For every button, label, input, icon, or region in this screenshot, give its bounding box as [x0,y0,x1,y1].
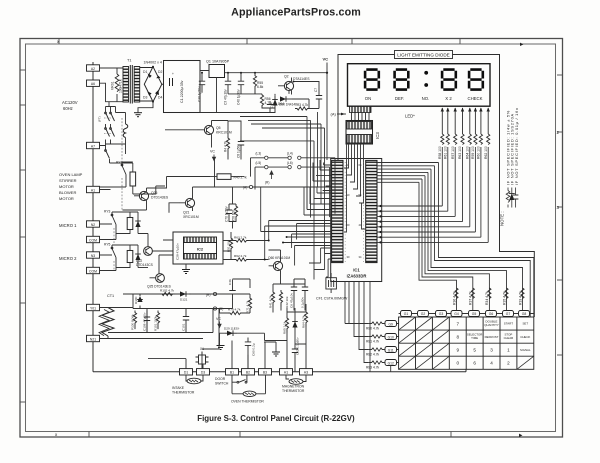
svg-text:X 2: X 2 [445,96,452,101]
svg-text:Figure S-3. Control Panel Circ: Figure S-3. Control Panel Circuit (R-22G… [197,414,355,423]
diode D100 [137,294,143,309]
svg-text:VC: VC [210,150,215,154]
svg-text:INTAKE: INTAKE [172,386,185,390]
svg-text:G4: G4 [454,312,459,316]
wires switches to A7 [100,144,126,190]
svg-text:MOTOR: MOTOR [59,184,74,189]
resistor R62 2.7k [234,258,249,261]
svg-text:STIRRER: STIRRER [59,178,77,183]
dashed link RY1 to coil below [121,178,123,210]
wire fan IC1 right pins to digit drivers (down to matrix) [377,163,534,318]
svg-text:R101 100k: R101 100k [154,316,158,331]
svg-text:R57 100: R57 100 [451,146,455,159]
AC line wires to transformer [100,68,124,102]
page border inner frame [26,44,556,432]
resistor R101 100k [156,311,159,330]
svg-text:R33 4.7k: R33 4.7k [518,291,522,305]
svg-text:3: 3 [557,205,560,210]
svg-text:KRC101M: KRC101M [216,131,232,135]
wires power section mesh [255,73,327,113]
svg-text:IC3: IC3 [375,132,380,139]
IC1 pin number columns (texture) [345,162,363,262]
svg-text:R61 100: R61 100 [444,146,448,159]
svg-text:+: + [172,72,174,76]
resistors R41/R42 [271,290,274,307]
dashed mechanical link upper [104,117,113,119]
svg-text:BLOWER: BLOWER [59,190,76,195]
svg-text:CF1 CSTA.00MGW: CF1 CSTA.00MGW [316,297,348,301]
wires Q5 row [165,121,241,160]
capacitor C101 [183,309,189,333]
left connector bus [92,62,94,372]
svg-text:C10 1µ50v: C10 1µ50v [198,86,202,102]
svg-text:DTD143ES: DTD143ES [151,196,169,200]
svg-text:QUANTITY: QUANTITY [484,323,499,327]
svg-text:G1: G1 [404,312,409,316]
svg-text:R102 4.7k: R102 4.7k [160,289,175,293]
resistor R55 6.8k [253,73,256,94]
connector box D3 [197,369,210,375]
svg-text:D2: D2 [158,70,162,74]
resistor R56 4.7k [260,94,275,108]
svg-text:20: 20 [347,223,350,227]
svg-text:G8: G8 [522,312,527,316]
resistor R102 4.7k [160,292,175,295]
node (R) [213,292,216,295]
transistor Q5 KRC101M [204,125,213,134]
wire fan IC1 left pins to mid section [255,160,332,280]
svg-text:NOTE :: NOTE : [500,211,505,226]
svg-text:DTD143CS: DTD143CS [136,263,154,267]
7-segment display module outline [348,64,491,106]
connector box B1 [226,369,239,375]
svg-text:C8 1µ50v: C8 1µ50v [237,144,241,158]
svg-text:D3: D3 [143,96,147,100]
title box LIGHT EMITTING DIODE [395,51,453,59]
svg-text:R71 4.7k: R71 4.7k [246,300,250,313]
wires IC3 to IC1 interior bus [344,144,365,232]
page border outer frame [20,39,563,438]
wires Q60 area [269,250,306,313]
connector box B3 [259,369,272,375]
svg-text:R59 100: R59 100 [471,146,475,159]
svg-text:R83 4.7k: R83 4.7k [366,366,380,370]
connector box A2 [87,65,100,71]
svg-text:Q21: Q21 [183,211,190,215]
svg-text:OVEN LAMP: OVEN LAMP [59,172,83,177]
diode D30 1N4148 [280,96,292,102]
transformer T1 [123,59,140,104]
svg-text:R40 2.7k: R40 2.7k [234,176,248,180]
svg-text:N2: N2 [91,223,95,227]
capacitor C8 [238,136,244,155]
svg-text:RY5: RY5 [104,243,111,247]
capacitor C10 [199,73,205,93]
interlock switch pair (FT) upper [105,112,115,128]
svg-text:(L4): (L4) [287,152,293,156]
svg-text:(R): (R) [265,181,269,185]
capacitor C64 [267,101,273,112]
ground (bottom rail) [217,346,225,350]
junction dots power rail [201,72,328,83]
capacitor C70 [226,204,232,220]
svg-text:G11: G11 [388,348,394,352]
svg-text:Q5: Q5 [216,126,221,130]
svg-text:64: 64 [359,163,362,167]
svg-text:A6: A6 [91,82,95,86]
connector box H1 [280,369,293,375]
svg-text:P100 8.06k: P100 8.06k [131,314,135,330]
svg-text:MICRO 1: MICRO 1 [59,223,77,228]
connector box N21 [87,335,100,341]
wire (A) to IC1 [205,186,331,188]
wire fan IC1 right pins to display columns [377,147,488,242]
resistor box RY5 coil [127,251,133,263]
svg-text:SET: SET [522,322,528,326]
svg-text:6: 6 [473,361,476,366]
svg-text:C40 1µ50v: C40 1µ50v [237,89,241,105]
svg-text:MAGNETRON: MAGNETRON [282,385,305,389]
svg-text:(R): (R) [206,293,210,297]
resistor R70 4.7k [228,311,243,314]
capacitor C62 [292,344,298,359]
resistor R71 4.7k [248,296,251,313]
diode D55 [135,217,141,230]
svg-text:D1: D1 [184,371,188,375]
resistor R40 2.7k (box style) [217,174,231,180]
svg-text:H1: H1 [284,371,288,375]
connector box D1 [180,369,193,375]
svg-text:G5: G5 [472,312,477,316]
svg-text:R42 10k: R42 10k [285,296,289,308]
transistor Q26 DTD143ES [139,191,148,200]
svg-text:C62 0.1µ50v: C62 0.1µ50v [296,337,300,355]
svg-text:G7: G7 [506,312,511,316]
frame tick marks [20,39,563,438]
ceramic resonator CF1 [326,273,337,293]
coil / breaker S-symbol [123,124,128,138]
matrix key labels [457,322,511,366]
display left pin group (5 wires to IC3) [352,106,370,120]
display annunciator labels [365,96,483,101]
svg-text:AppliancePartsPros.com: AppliancePartsPros.com [231,7,361,19]
transistor Q25 DTD143ES [156,274,165,283]
connector pair (L6) [288,165,291,168]
switch contact (oven lamp branch) [105,146,110,164]
note diode symbol [509,188,515,208]
svg-text:R36 4.7k: R36 4.7k [452,291,456,305]
svg-text:Y01: Y01 [90,306,96,310]
capacitor C40 [238,73,244,94]
labels R33-R37 [452,291,522,305]
svg-text:C7: C7 [314,88,318,92]
oven thermistor symbol [243,391,256,396]
svg-text:C3 47µ10v: C3 47µ10v [224,89,228,105]
labels R57-R64 100 [438,146,488,159]
svg-text:RY3: RY3 [104,210,111,214]
svg-text:30: 30 [347,255,350,259]
connector box N2 [87,221,100,227]
svg-text:R60 100: R60 100 [477,146,481,159]
wires IC2 [153,232,269,274]
LED section enclosure box [338,55,534,318]
svg-text:10G471K: 10G471K [119,78,123,93]
diode bridge D1-D4 [140,67,164,102]
IC1 right pin strip [366,160,377,262]
column connector boxes G1-G8 [399,311,534,318]
svg-text:C64: C64 [270,102,274,108]
matrix diagonal (unused) cells [399,317,534,369]
svg-text:R63 100: R63 100 [458,146,462,159]
svg-text:CT1: CT1 [107,294,114,298]
connector box H3 [300,369,313,375]
svg-text:DOOR: DOOR [215,377,226,381]
wire A6 column down to switches [106,102,116,113]
svg-text:R58 100: R58 100 [438,146,442,159]
transistor Q2 DTA114ES [284,81,293,90]
capacitor C108 [144,311,150,333]
resistor box (lamp series) [130,172,136,186]
svg-text:OVEN THERMISTOR: OVEN THERMISTOR [231,400,264,404]
colon [424,71,428,75]
svg-text:D100: D100 [134,296,138,304]
diode D63 [292,318,298,328]
svg-text:G3: G3 [439,312,444,316]
intake thermistor symbol [187,378,201,384]
svg-text:START: START [504,322,513,326]
wires Y01/N21 to CT1 [100,308,204,339]
svg-text:Q60 KRA101M: Q60 KRA101M [268,256,290,260]
dashed link RY5 [113,261,115,270]
capacitor C60 (B2 riser) [245,338,251,369]
svg-text:60Hz: 60Hz [63,106,73,111]
svg-text:4: 4 [490,361,493,366]
transistor Q21 XRC101M [185,198,194,207]
node (L5) [265,165,268,168]
svg-text:AC120V: AC120V [62,100,78,105]
svg-text:VRS1: VRS1 [111,81,115,90]
svg-text:LED*: LED* [405,114,415,119]
frame tick labels [55,39,560,438]
svg-text:NO.: NO. [422,96,430,101]
wires MICRO1 loop [100,212,149,247]
display left pin hatch block [350,107,372,113]
digit 2 [395,70,409,90]
svg-text:R62 2.7k: R62 2.7k [234,254,247,258]
svg-text:R62 100: R62 100 [484,146,488,159]
matrix grid [399,317,534,369]
connector box COM2 [87,267,100,273]
current transformer CT1 winding [102,308,114,336]
diode D64 [272,96,278,108]
svg-text:IF NOT SPECIFIED: 0.01µ / 16v: IF NOT SPECIFIED: 0.01µ / 16v [514,107,519,185]
connector pair (L4) [288,156,291,159]
row connector boxes G9-G12 with resistors R80-R83 [366,321,399,370]
wires oven-lamp bus joins [100,179,166,195]
svg-text:THERMISTOR: THERMISTOR [172,391,195,395]
diode D29 11ES [225,330,237,336]
svg-text:XRC101M: XRC101M [183,215,199,219]
svg-text:▶: ▶ [520,42,524,47]
svg-text:CHECK: CHECK [520,335,530,339]
svg-text:SWITCH: SWITCH [215,382,229,386]
svg-text:D30 1N4148: D30 1N4148 [279,103,297,107]
intake thermistor wires [186,375,203,381]
svg-text:Q26: Q26 [151,191,158,195]
capacitor C7 [316,88,322,108]
sense network rails [108,294,213,333]
label OVEN LAMP STIRRER MOTOR BLOWER MOTOR [59,172,83,201]
svg-text:(FT): (FT) [98,116,102,122]
resistors R65 / R64 (magnetron sense) [285,316,288,333]
dashed link interlock to RY1 [121,118,123,162]
svg-text:5: 5 [473,348,476,353]
note resistor symbol [506,188,510,208]
svg-text:D29 11ES†: D29 11ES† [224,327,240,331]
svg-text:(A): (A) [243,186,247,190]
capacitors C6 / C9 [291,279,308,303]
svg-text:IC2: IC2 [197,247,204,252]
svg-text:D4: D4 [158,96,162,100]
connector block IC3 [346,121,373,145]
capacitor C3 [225,73,231,94]
ground symbol (bridge) [134,113,142,117]
op-amp/micro IC1 outer box [331,159,382,282]
magnetron thermistor symbol [289,379,303,385]
svg-text:R35 4.7k: R35 4.7k [502,291,506,305]
svg-text:D3: D3 [201,371,205,375]
junction dots IC1 left [264,236,288,261]
connector box A7 [87,142,100,148]
svg-text:DEF.: DEF. [395,96,404,101]
svg-text:R41 4.7k: R41 4.7k [269,295,273,308]
resistor R3 4.7k [295,107,310,110]
svg-text:IC1: IC1 [353,268,360,273]
svg-text:8: 8 [457,335,460,340]
svg-text:G6: G6 [489,312,494,316]
connector box A1 [87,186,100,192]
svg-text:DEFROST: DEFROST [485,335,499,339]
node (B) [213,307,216,310]
svg-text:MICRO 2: MICRO 2 [59,256,77,261]
svg-text:(L6): (L6) [287,161,293,165]
svg-text:0.1µ50v: 0.1µ50v [301,296,305,308]
svg-text:ON: ON [365,96,371,101]
svg-text:(L3): (L3) [256,152,262,156]
wires IC1 bottom to matrix rows [345,282,391,372]
varistor VRS1 [115,74,119,92]
svg-text:34: 34 [359,255,362,259]
svg-text:VC: VC [323,57,329,62]
svg-text:Q2: Q2 [284,75,289,79]
mid vertical wire bundle [240,112,325,270]
svg-text:2: 2 [507,361,510,366]
note capacitor symbol [513,188,519,208]
bridge bottom to ground [138,102,153,113]
diode D56 [135,250,141,263]
connector box Y01 [87,304,100,310]
svg-text:D1: D1 [143,70,147,74]
svg-text:x: x [57,39,60,44]
svg-text:N3: N3 [91,254,95,258]
VC rail from Q1 [164,63,328,161]
display right pin arrows (8 anode column pins) [442,108,488,134]
junction dots on IC1 right pins [379,205,381,244]
svg-text:COM: COM [89,269,97,273]
svg-text:THERMISTOR: THERMISTOR [282,389,305,393]
wires Q26/Q21 row [123,159,215,213]
connector box COM [87,236,100,242]
svg-text:C60 0.2µ: C60 0.2µ [252,343,256,356]
svg-text:SIGNAL: SIGNAL [520,348,531,352]
dashed mechanical link lower [104,133,113,135]
resistor bank R57-R64 (100 ohm) zigzags [441,134,490,145]
svg-text:H3: H3 [304,371,308,375]
svg-text:C1 2200µ 35v: C1 2200µ 35v [180,80,184,103]
svg-text:Q1 10A7805P: Q1 10A7805P [206,60,230,64]
svg-text:C46: C46 [228,279,232,285]
wires node rows [251,158,336,217]
wires D3/X1 riser [202,309,219,369]
svg-text:9: 9 [457,348,460,353]
svg-text:N21: N21 [90,337,96,341]
transistor Q22 DTD143CS [144,247,153,256]
svg-text:C28 47µ10v: C28 47µ10v [176,243,180,260]
svg-text:R80 4.7k: R80 4.7k [366,327,380,331]
svg-text:2: 2 [557,130,560,135]
svg-text:C101: C101 [182,323,186,331]
svg-text:CHECK: CHECK [467,96,482,101]
resistor R63 2.7k [234,239,249,242]
digit 4 [469,70,483,90]
ground symbol (IC2) [182,270,190,274]
digit 3 [442,70,456,90]
svg-text:54: 54 [359,193,362,197]
svg-text:7: 7 [457,322,460,327]
wires bus risers [148,341,265,369]
IC1 left pin strip [332,160,343,262]
svg-text:x: x [55,432,58,437]
node (A) mid [249,185,252,188]
ground (C62) [272,352,280,356]
svg-text:▶: ▶ [519,433,523,438]
svg-text:C108 47µ10v: C108 47µ10v [143,312,147,331]
svg-text:DTA114ES: DTA114ES [293,77,310,81]
svg-text:C70 1µ50v: C70 1µ50v [225,206,229,222]
svg-text:A1: A1 [91,188,95,192]
svg-text:1: 1 [507,348,510,353]
resistor P100 8.06k [133,311,136,330]
svg-text:R65 1.1k: R65 1.1k [283,321,287,334]
svg-text:R63 2.7k: R63 2.7k [234,236,247,240]
node (L3) [265,156,268,159]
svg-text:CLEAR: CLEAR [504,336,514,340]
connector box A6 [87,80,100,86]
svg-text:R64 4.7k: R64 4.7k [302,315,306,328]
svg-text:R4 4.7k: R4 4.7k [224,141,228,152]
digit 1 [365,70,379,90]
resistor R58 100 (mid) [234,204,237,221]
svg-text:1N4002 x 4: 1N4002 x 4 [144,61,162,65]
wires MICRO2 loop [100,245,149,271]
svg-text:R81 4.7k: R81 4.7k [366,340,380,344]
diode D121 [181,291,191,297]
extra IC1 left stub wires [292,186,332,266]
ground rail under supply [200,78,262,113]
svg-text:G9: G9 [388,322,393,326]
connector box N3 [87,252,100,258]
dashed link RY3 [113,228,115,243]
